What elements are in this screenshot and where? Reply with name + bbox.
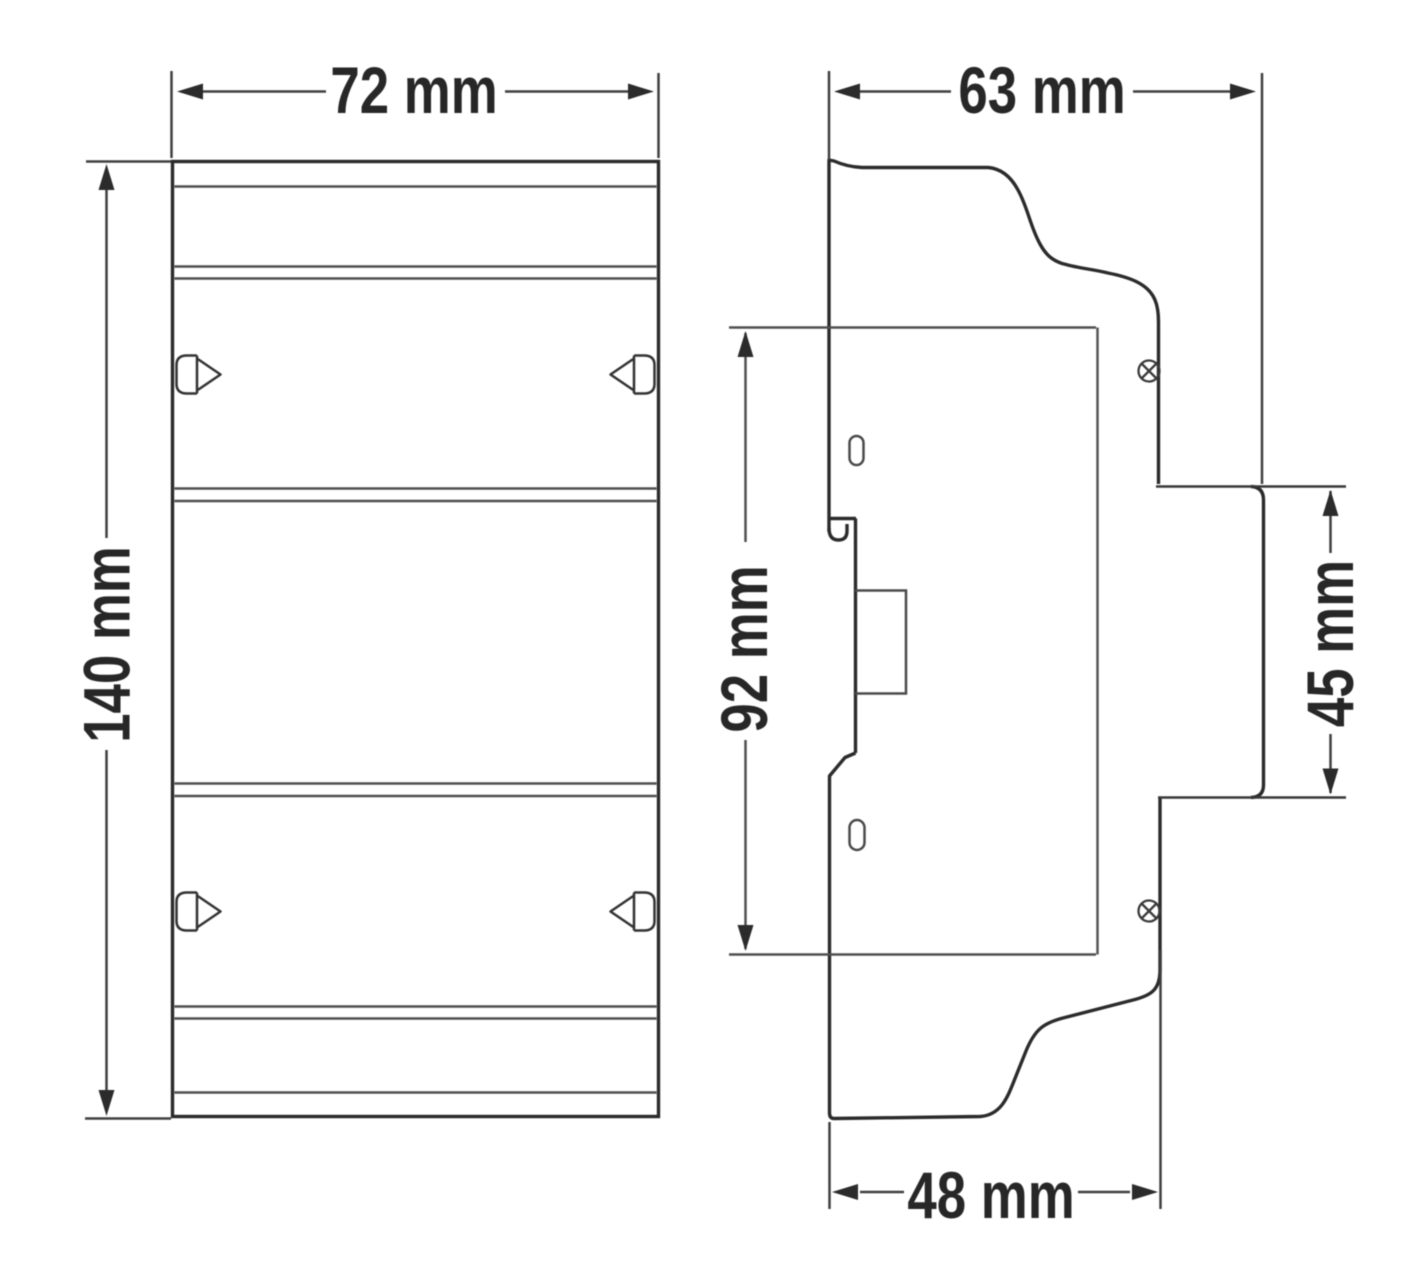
svg-text:92 mm: 92 mm xyxy=(707,565,781,732)
svg-text:48 mm: 48 mm xyxy=(907,1158,1074,1232)
svg-text:45 mm: 45 mm xyxy=(1293,560,1367,727)
svg-text:140 mm: 140 mm xyxy=(70,546,144,743)
svg-text:72 mm: 72 mm xyxy=(330,53,497,127)
svg-text:63 mm: 63 mm xyxy=(958,53,1125,127)
